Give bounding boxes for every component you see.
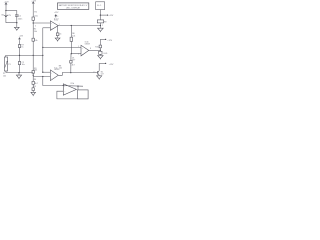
wire capacitor branch lower: [16, 16, 18, 27]
ground below IC1a: [55, 38, 60, 41]
node tap3 dot: [33, 75, 34, 76]
node tap2 dot on reference wire: [33, 55, 34, 56]
wire into box top: [77, 86, 79, 90]
node dot IC1d + input: [63, 85, 64, 86]
wire IC1a output: [58, 25, 100, 27]
resistor R6: [70, 37, 72, 41]
wire +12V tap mid right: [100, 38, 105, 40]
svg-text:R4: R4: [34, 79, 36, 81]
ground below pot wire: [18, 73, 20, 75]
svg-text:+: +: [51, 23, 52, 25]
svg-text:IC1d: IC1d: [70, 83, 74, 85]
svg-text:C1: C1: [18, 15, 21, 17]
LED box B-1 top right: [96, 2, 105, 10]
wire branch down from IC1a output: [70, 26, 72, 38]
resistor R7: [18, 45, 20, 48]
battery B1: [2, 15, 12, 17]
title box: [58, 3, 89, 9]
node dot on pot wire: [18, 72, 19, 73]
svg-text:6: 6: [35, 25, 36, 27]
node junction dot bottom-left: [16, 22, 17, 23]
svg-text:+: +: [64, 86, 65, 88]
wire down from IC1b - node: [70, 54, 72, 73]
IC1 supply label cluster: [54, 12, 59, 20]
node A junction dot: [5, 10, 6, 11]
resistor R10: [99, 45, 101, 48]
wire battery branch upper: [5, 11, 7, 16]
wire R6 to IC1b - node: [70, 41, 72, 53]
svg-text:R9: R9: [104, 21, 106, 23]
svg-text:+: +: [82, 48, 83, 50]
svg-text:−: −: [51, 78, 52, 80]
ground top-left: [14, 27, 19, 30]
wire IC1c output jog: [58, 73, 97, 76]
wire collector down: [98, 63, 100, 70]
power arrow +12V mid-left chain: [19, 35, 24, 40]
wire divider to ground: [32, 91, 34, 93]
capacitor C2: [18, 62, 20, 65]
svg-text:10n: 10n: [22, 64, 25, 66]
wire top-left horizontal: [6, 10, 17, 12]
power arrow +12V top-left: [4, 1, 10, 10]
wire divider R1 to tap1: [32, 20, 34, 41]
wire IC1b output: [89, 49, 101, 51]
box BZ1: [78, 90, 89, 99]
svg-text:4V7: 4V7: [72, 59, 75, 61]
wire divider R2 to tap2: [32, 41, 34, 70]
op-amp IC1d: [63, 84, 76, 95]
wire battery branch lower: [5, 17, 7, 23]
wire divider R3 to tap3: [32, 73, 34, 81]
ground top right: [98, 28, 104, 31]
wire box down: [99, 10, 101, 20]
wire to IC1b + input: [43, 46, 81, 48]
wire to +12V label: [100, 14, 107, 16]
wire chain x19.5 upper: [19, 40, 21, 44]
wire tap3 branch down to IC1d: [43, 77, 64, 86]
svg-text:−: −: [82, 54, 83, 56]
node dot IC1a output end: [100, 25, 101, 26]
svg-text:C3: C3: [59, 33, 61, 35]
node dot IC1b output end: [100, 50, 101, 51]
wire pot to divider y72.6: [6, 72, 33, 74]
svg-text:4k7: 4k7: [72, 64, 75, 66]
wire tap3 to IC1c - input: [33, 76, 50, 78]
svg-text:+: +: [51, 73, 52, 75]
transistor T1: [93, 71, 103, 76]
svg-text:2: 2: [102, 25, 103, 27]
resistor R1: [32, 17, 34, 20]
node dot above box: [77, 85, 78, 86]
svg-text:547: 547: [101, 73, 104, 75]
wire bottom-left horizontal: [6, 22, 17, 24]
wire IC1a - input: [43, 27, 51, 29]
node dot IC1a output branch: [71, 25, 72, 26]
svg-text:100n: 100n: [18, 19, 22, 21]
zener chain below IC1a: [57, 26, 59, 38]
LED D2: [99, 51, 102, 54]
capacitor C1: [15, 15, 22, 21]
diode D1: [70, 61, 72, 64]
svg-text:+12V: +12V: [107, 40, 112, 42]
wire chain lower: [19, 65, 21, 73]
resistor R3: [32, 71, 34, 74]
svg-text:LM339: LM339: [54, 69, 59, 71]
node dot chain/ref: [19, 55, 20, 56]
wire divider chain vertical R1 segment: [32, 5, 34, 17]
svg-text:LED: LED: [104, 53, 108, 55]
op-amp IC1b: [78, 42, 91, 56]
node dot on IC1c output wire: [70, 72, 71, 73]
svg-text:+12V: +12V: [19, 35, 24, 37]
wire chain to ref wire: [19, 48, 21, 62]
wire reference horizontal y55: [6, 54, 43, 56]
svg-text:10k: 10k: [3, 75, 6, 77]
wire down mid right: [99, 39, 101, 55]
svg-text:4k7: 4k7: [35, 83, 38, 85]
svg-text:+12V: +12V: [54, 12, 59, 14]
wire capacitor branch upper: [16, 11, 18, 15]
wire to IC1b - input: [71, 53, 81, 55]
ground transistor: [97, 76, 102, 79]
component C3: [56, 33, 59, 36]
svg-text:R10: R10: [95, 46, 98, 48]
ground divider bottom: [31, 92, 36, 95]
svg-text:+12V: +12V: [109, 15, 114, 17]
svg-text:P1: P1: [8, 64, 10, 66]
wire IC1d + continues over triangle: [63, 85, 83, 88]
svg-text:1k: 1k: [21, 47, 23, 49]
node dot IC1b + tap: [42, 47, 43, 48]
svg-text:+12V: +12V: [31, 1, 36, 3]
op-amp IC1a: [50, 19, 59, 30]
svg-text:15k: 15k: [34, 15, 38, 17]
resistor R2: [32, 38, 34, 41]
svg-text:5: 5: [78, 46, 79, 48]
svg-text:T1: T1: [93, 72, 95, 74]
node tap1 dot: [33, 22, 34, 23]
node dot reference wire end: [42, 55, 43, 56]
svg-text:R1: R1: [34, 12, 38, 14]
wire emitter down: [98, 74, 100, 77]
node dot IC1b -: [71, 53, 72, 54]
power arrow +12V divider top: [31, 1, 36, 5]
wire IC1d feedback: [57, 91, 78, 99]
svg-text:12V: 12V: [7, 15, 11, 17]
wire +12V tap transistor collector: [99, 62, 105, 64]
svg-text:−: −: [64, 91, 66, 93]
svg-text:LED - DISPLAY: LED - DISPLAY: [66, 6, 81, 9]
potentiometer P1: [3, 55, 11, 77]
node dot on tap3 wire to op4: [42, 76, 43, 77]
node dot +12V tap top right: [100, 14, 101, 15]
svg-text:+12V: +12V: [109, 64, 114, 66]
svg-text:10k: 10k: [34, 31, 37, 33]
svg-text:10k: 10k: [34, 40, 37, 42]
wire tap1 to op-amp IC1a + input: [33, 22, 50, 24]
wire IC1c + input: [43, 71, 51, 73]
wire R9 to node: [99, 23, 101, 28]
svg-text:4: 4: [78, 54, 79, 56]
op-amp IC1c: [50, 67, 59, 80]
svg-text:8: 8: [90, 48, 91, 50]
wire divider R4 to R5: [32, 84, 34, 88]
resistor R9: [97, 20, 103, 23]
svg-text:LM339: LM339: [85, 43, 90, 45]
resistor R5: [32, 88, 34, 91]
svg-text:−: −: [51, 28, 52, 30]
wire reference vertical x43 upper: [42, 28, 44, 72]
ground mid right: [98, 56, 103, 59]
svg-text:BATTERY MONITOR FOR A 12 V: BATTERY MONITOR FOR A 12 V: [59, 4, 88, 7]
